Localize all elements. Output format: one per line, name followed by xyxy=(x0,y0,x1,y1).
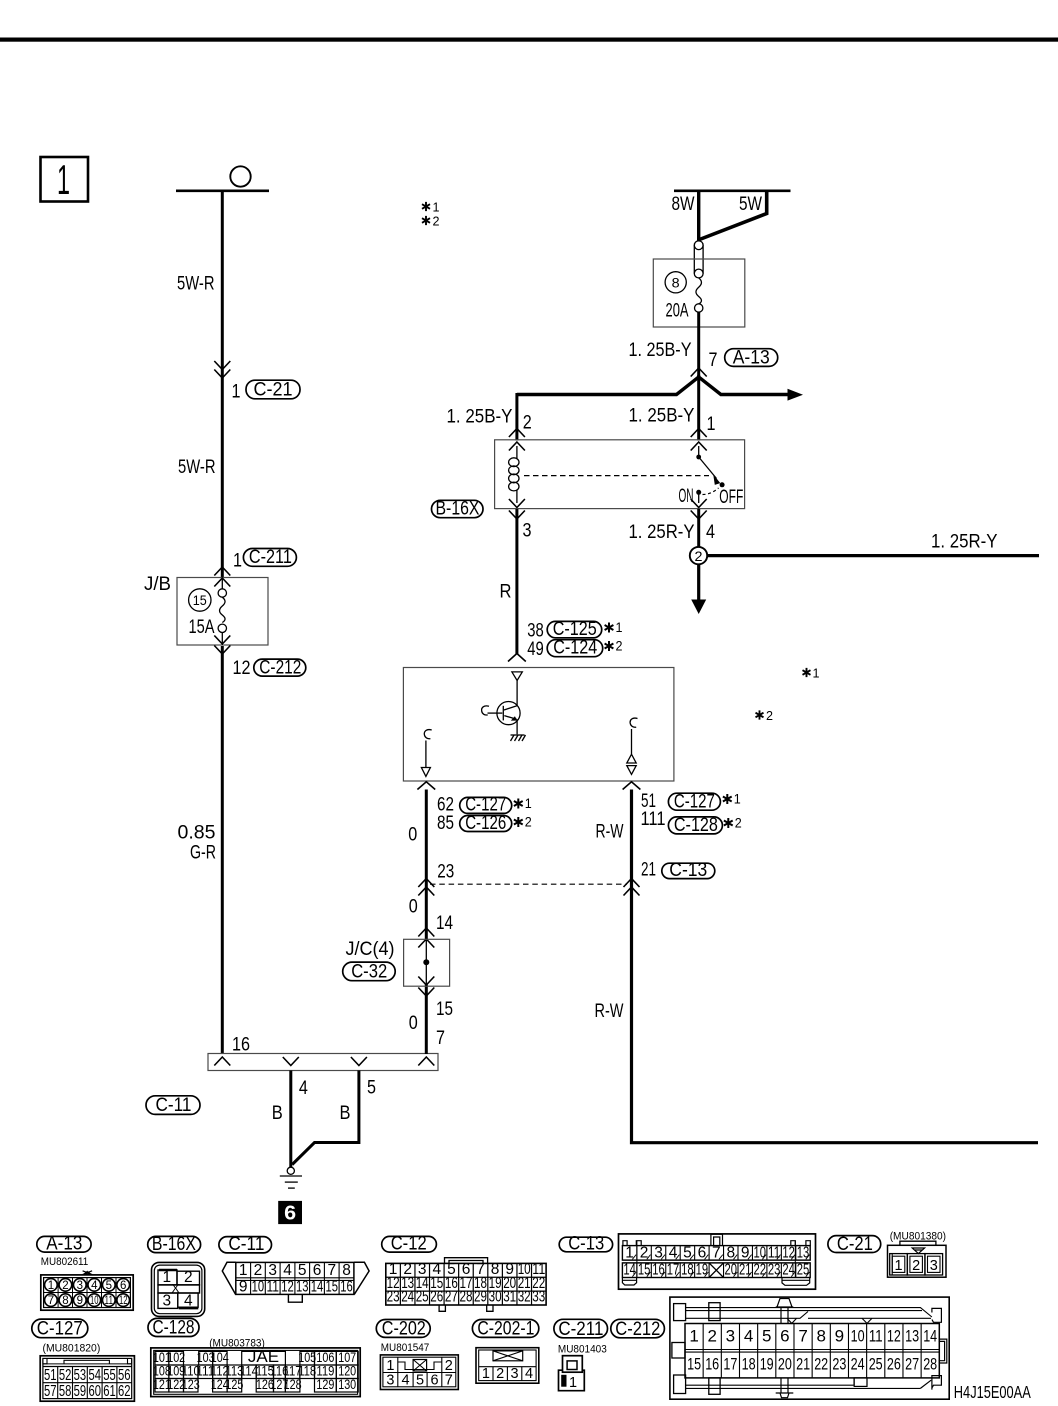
svg-text:OFF: OFF xyxy=(719,487,743,508)
wire: relay pin 4 to splice 2 xyxy=(697,509,700,547)
svg-text:15: 15 xyxy=(436,999,453,1020)
svg-text:10: 10 xyxy=(90,1295,99,1307)
svg-text:128: 128 xyxy=(284,1377,302,1392)
svg-text:7: 7 xyxy=(709,350,718,371)
svg-text:8: 8 xyxy=(342,1262,351,1279)
chevron crossing J/B bottom edge xyxy=(214,636,230,645)
svg-text:12: 12 xyxy=(782,1244,795,1261)
fuse number circle 8 xyxy=(665,272,686,293)
svg-text:9: 9 xyxy=(239,1279,248,1296)
note star 1 (mid right) xyxy=(803,666,820,681)
arrowhead on feed bus xyxy=(788,389,804,401)
svg-text:5: 5 xyxy=(298,1262,307,1279)
svg-text:C-32: C-32 xyxy=(351,961,387,982)
svg-text:56: 56 xyxy=(118,1367,131,1384)
chevrons below relay pin 3 xyxy=(509,499,525,508)
connector symbol A-13 pin 7 (chevron up) xyxy=(691,368,707,377)
svg-text:19: 19 xyxy=(760,1355,774,1374)
svg-text:1: 1 xyxy=(57,156,70,203)
svg-text:R-W: R-W xyxy=(595,1001,624,1022)
svg-text:C-124: C-124 xyxy=(553,638,597,659)
svg-text:1. 25R-Y: 1. 25R-Y xyxy=(629,522,695,543)
note star 2 (top) xyxy=(422,214,440,229)
svg-text:16: 16 xyxy=(232,1035,250,1056)
svg-text:6: 6 xyxy=(780,1327,789,1346)
svg-text:10: 10 xyxy=(753,1244,766,1261)
svg-text:25: 25 xyxy=(869,1355,883,1374)
chevrons above relay pin 1 xyxy=(691,429,707,438)
svg-text:111: 111 xyxy=(641,809,666,830)
svg-text:20: 20 xyxy=(778,1355,792,1374)
svg-text:18: 18 xyxy=(742,1355,756,1374)
svg-text:B-16X: B-16X xyxy=(152,1234,196,1255)
ground reference number 6 (reversed) xyxy=(278,1201,302,1225)
svg-text:51: 51 xyxy=(44,1367,57,1384)
relay switch xyxy=(696,446,724,503)
svg-text:1: 1 xyxy=(482,1366,490,1382)
transistor Q1 xyxy=(488,702,521,735)
svg-text:2: 2 xyxy=(912,1258,920,1274)
svg-text:J/C(4): J/C(4) xyxy=(346,939,395,960)
wire: unit left output down to C-11 pin 7 (O) xyxy=(425,790,428,942)
connector label C-13 xyxy=(662,860,715,881)
relay label B-16X xyxy=(432,499,484,520)
svg-text:4: 4 xyxy=(184,1293,193,1310)
svg-text:0: 0 xyxy=(408,825,417,846)
svg-text:B: B xyxy=(272,1103,283,1124)
svg-text:1: 1 xyxy=(232,382,241,403)
connector label C-11 xyxy=(146,1095,200,1116)
svg-text:1: 1 xyxy=(233,551,242,572)
svg-text:C-21: C-21 xyxy=(837,1234,873,1255)
svg-text:57: 57 xyxy=(44,1383,57,1400)
svg-text:C-212: C-212 xyxy=(259,657,301,678)
svg-text:1: 1 xyxy=(569,1375,577,1391)
connector symbol at C-125/C-124 (lambda up) xyxy=(508,654,526,662)
svg-text:MU801403: MU801403 xyxy=(558,1343,607,1355)
svg-text:2: 2 xyxy=(254,1262,263,1279)
svg-text:53: 53 xyxy=(74,1367,87,1384)
svg-text:C-126: C-126 xyxy=(465,813,506,834)
svg-text:7: 7 xyxy=(445,1372,453,1388)
svg-text:X: X xyxy=(171,1281,179,1295)
svg-text:28: 28 xyxy=(923,1355,937,1374)
svg-text:3: 3 xyxy=(523,520,532,541)
junction dot xyxy=(423,959,429,965)
svg-text:4: 4 xyxy=(401,1372,409,1388)
svg-text:2: 2 xyxy=(766,708,773,723)
svg-text:12: 12 xyxy=(233,658,251,679)
svg-text:C-211: C-211 xyxy=(558,1319,603,1340)
svg-text:C-128: C-128 xyxy=(674,815,718,836)
svg-text:MU802611: MU802611 xyxy=(41,1256,89,1268)
svg-text:1: 1 xyxy=(689,1327,698,1346)
wire: junction down to relay pin 1 xyxy=(697,375,700,441)
svg-text:C-13: C-13 xyxy=(568,1234,604,1255)
connector label C-127 xyxy=(460,795,512,816)
svg-text:23: 23 xyxy=(437,862,454,883)
svg-text:MU801547: MU801547 xyxy=(381,1342,430,1354)
chevron pin 4 in strip xyxy=(283,1057,299,1066)
note star 1 xyxy=(723,791,741,807)
fuse box 8 xyxy=(653,259,745,327)
svg-text:1: 1 xyxy=(813,666,820,681)
collector lead xyxy=(516,681,518,706)
svg-text:130: 130 xyxy=(338,1377,356,1392)
svg-text:12: 12 xyxy=(887,1327,901,1346)
connector face C-202 xyxy=(376,1319,458,1390)
svg-text:17: 17 xyxy=(723,1355,737,1374)
svg-text:C-21: C-21 xyxy=(254,379,293,400)
svg-text:31: 31 xyxy=(503,1289,516,1306)
svg-text:24: 24 xyxy=(782,1262,795,1279)
svg-text:14: 14 xyxy=(923,1327,937,1346)
svg-text:4: 4 xyxy=(299,1078,308,1099)
svg-text:5: 5 xyxy=(416,1372,424,1388)
relay coil xyxy=(509,446,519,503)
svg-text:2: 2 xyxy=(523,413,532,434)
svg-text:(MU801820): (MU801820) xyxy=(43,1342,101,1354)
connector face MU801403 xyxy=(559,1356,585,1391)
svg-text:B: B xyxy=(340,1103,351,1124)
connector label C-32 xyxy=(343,961,396,982)
right output pigtail xyxy=(627,718,638,774)
svg-text:5: 5 xyxy=(367,1077,376,1098)
base pigtail curl xyxy=(482,706,489,715)
chassis ground inside unit xyxy=(511,735,526,741)
svg-text:17: 17 xyxy=(667,1262,680,1279)
connector face C-12 xyxy=(382,1234,546,1312)
svg-text:32: 32 xyxy=(518,1289,531,1306)
svg-text:60: 60 xyxy=(88,1383,101,1400)
svg-text:3: 3 xyxy=(511,1366,519,1382)
svg-text:11: 11 xyxy=(869,1327,883,1346)
connector fork below unit right xyxy=(623,782,641,790)
ground symbol xyxy=(280,1167,302,1188)
chevrons above relay pin 2 xyxy=(509,429,525,438)
connector symbol at C-21 pin 1 (double chevron down) xyxy=(214,361,230,370)
svg-text:25: 25 xyxy=(416,1289,429,1306)
svg-text:25: 25 xyxy=(797,1262,810,1279)
connector symbol above J/B (chevron up) xyxy=(214,567,230,576)
svg-text:5W-R: 5W-R xyxy=(177,274,215,295)
svg-text:G-R: G-R xyxy=(190,843,216,864)
svg-text:16: 16 xyxy=(705,1355,719,1374)
note star 2 xyxy=(724,815,742,831)
svg-text:14: 14 xyxy=(436,913,453,934)
connector face C-211/C-212 (joint connector) xyxy=(670,1297,949,1399)
svg-text:0: 0 xyxy=(409,896,418,917)
svg-text:9: 9 xyxy=(835,1327,844,1346)
svg-text:7: 7 xyxy=(798,1327,807,1346)
svg-text:1: 1 xyxy=(386,1358,394,1374)
svg-text:1. 25B-Y: 1. 25B-Y xyxy=(447,406,513,427)
svg-text:C-127: C-127 xyxy=(674,791,715,812)
double chevron up on left wire xyxy=(418,879,434,888)
left output pigtail xyxy=(421,730,431,777)
svg-text:R: R xyxy=(500,581,512,602)
wire: ignition switch to connector C-21 pin 1 (5W-R) xyxy=(221,191,224,378)
zone number box 1 xyxy=(41,156,89,203)
svg-text:13: 13 xyxy=(296,1279,309,1296)
tail lamp relay box B-16X xyxy=(495,440,745,509)
svg-text:26: 26 xyxy=(887,1355,901,1374)
chevron pin 5 in strip xyxy=(351,1057,367,1066)
svg-text:7: 7 xyxy=(48,1295,54,1307)
svg-text:2: 2 xyxy=(616,638,623,654)
svg-text:11: 11 xyxy=(768,1244,781,1261)
joint connector J/C(4) box xyxy=(404,939,450,986)
svg-text:55: 55 xyxy=(103,1367,116,1384)
svg-text:3: 3 xyxy=(77,1280,83,1292)
wire: fuse to junction (1.25B-Y) xyxy=(697,312,700,376)
svg-text:3: 3 xyxy=(386,1372,394,1388)
svg-text:5W-R: 5W-R xyxy=(178,457,216,478)
svg-text:12: 12 xyxy=(281,1279,294,1296)
note star 1 xyxy=(605,619,623,635)
svg-text:58: 58 xyxy=(59,1383,72,1400)
svg-text:15: 15 xyxy=(687,1355,701,1374)
svg-text:C-202-1: C-202-1 xyxy=(477,1319,534,1340)
svg-text:59: 59 xyxy=(74,1383,87,1400)
svg-text:21: 21 xyxy=(739,1262,752,1279)
chevron pin 16 inside strip xyxy=(214,1057,230,1066)
note star 2 xyxy=(605,638,623,654)
svg-text:6: 6 xyxy=(120,1280,126,1292)
chevron crossing J/C bottom xyxy=(418,977,434,986)
connector label C-125 xyxy=(547,619,602,640)
svg-text:6: 6 xyxy=(313,1262,322,1279)
svg-text:1: 1 xyxy=(616,619,623,635)
svg-text:14: 14 xyxy=(311,1279,324,1296)
svg-text:23: 23 xyxy=(387,1289,400,1306)
svg-text:1: 1 xyxy=(433,200,440,215)
svg-text:C-11: C-11 xyxy=(156,1095,192,1116)
svg-text:6: 6 xyxy=(284,1203,296,1225)
fuse number circle 15 xyxy=(189,589,211,611)
svg-text:10: 10 xyxy=(252,1279,265,1296)
svg-text:1: 1 xyxy=(48,1280,54,1292)
svg-text:123: 123 xyxy=(182,1377,200,1392)
svg-text:ON: ON xyxy=(679,486,694,507)
chevron below J/C xyxy=(418,988,434,997)
wire: C-21 to C-211 (5W-R) xyxy=(221,378,224,577)
connector label C-127 (right) xyxy=(668,791,720,812)
svg-text:2: 2 xyxy=(433,214,440,229)
svg-text:20A: 20A xyxy=(666,300,689,321)
splice Y junction with feed bus xyxy=(517,377,699,395)
svg-text:16: 16 xyxy=(340,1279,353,1296)
coil-to-switch link (dashed) xyxy=(524,475,709,477)
connector strip C-11 xyxy=(208,1054,438,1071)
double chevron up on right wire xyxy=(624,879,640,888)
svg-text:5: 5 xyxy=(106,1280,112,1292)
svg-text:22: 22 xyxy=(753,1262,766,1279)
connector labels C-211 C-212 xyxy=(554,1319,664,1356)
svg-text:2: 2 xyxy=(62,1280,68,1292)
svg-text:20: 20 xyxy=(725,1262,738,1279)
svg-text:15: 15 xyxy=(638,1262,651,1279)
connector fork below unit left xyxy=(417,782,435,790)
svg-text:26: 26 xyxy=(430,1289,443,1306)
svg-text:2: 2 xyxy=(445,1358,453,1374)
svg-text:61: 61 xyxy=(103,1383,116,1400)
chevrons below relay pin 4 xyxy=(691,499,707,508)
svg-text:4: 4 xyxy=(91,1280,98,1292)
svg-text:1: 1 xyxy=(239,1262,248,1279)
svg-text:5W: 5W xyxy=(739,194,762,215)
svg-text:2: 2 xyxy=(184,1269,193,1286)
svg-text:C-212: C-212 xyxy=(615,1319,660,1340)
svg-text:1. 25B-Y: 1. 25B-Y xyxy=(629,406,695,427)
svg-text:1: 1 xyxy=(734,791,741,807)
svg-text:21: 21 xyxy=(641,859,656,880)
svg-text:21: 21 xyxy=(796,1355,810,1374)
svg-text:13: 13 xyxy=(905,1327,919,1346)
svg-text:62: 62 xyxy=(118,1383,131,1400)
connector face C-127 xyxy=(32,1319,135,1402)
svg-text:24: 24 xyxy=(851,1355,865,1374)
svg-text:3: 3 xyxy=(726,1327,735,1346)
svg-text:J/B: J/B xyxy=(144,574,171,595)
wire: J/B to C-11 pin 16 (0.85 G-R) xyxy=(221,646,224,1054)
svg-text:125: 125 xyxy=(225,1377,243,1392)
svg-text:8: 8 xyxy=(816,1327,825,1346)
svg-text:15A: 15A xyxy=(189,617,215,638)
svg-text:1: 1 xyxy=(162,1269,171,1286)
input arrow triangle (down) xyxy=(512,672,522,681)
svg-text:12: 12 xyxy=(119,1295,128,1307)
note star 1 (top) xyxy=(422,200,440,215)
svg-text:C-211: C-211 xyxy=(249,547,292,568)
svg-text:15: 15 xyxy=(193,593,207,608)
svg-text:18: 18 xyxy=(681,1262,694,1279)
svg-text:8W: 8W xyxy=(672,194,695,215)
fusible link symbol xyxy=(694,241,703,312)
connector label C-126 xyxy=(460,813,512,834)
svg-text:54: 54 xyxy=(88,1367,101,1384)
connector label C-211 xyxy=(243,547,296,568)
svg-text:85: 85 xyxy=(437,813,454,834)
svg-text:27: 27 xyxy=(445,1289,458,1306)
5W branch wedge wire xyxy=(700,191,767,240)
svg-text:10: 10 xyxy=(851,1327,865,1346)
chevron below J/B xyxy=(214,646,230,655)
svg-text:R-W: R-W xyxy=(596,822,624,843)
svg-text:4: 4 xyxy=(283,1262,292,1279)
svg-text:8: 8 xyxy=(62,1295,68,1307)
double chevron up at J/C top xyxy=(418,928,434,937)
svg-text:A-13: A-13 xyxy=(46,1234,82,1255)
svg-text:0: 0 xyxy=(409,1013,418,1034)
svg-text:2: 2 xyxy=(496,1366,504,1382)
svg-text:B-16X: B-16X xyxy=(436,499,480,520)
ECU box (tail lamp control unit) xyxy=(403,668,674,782)
svg-text:1. 25B-Y: 1. 25B-Y xyxy=(629,340,692,361)
connector label C-21 xyxy=(246,379,300,400)
svg-text:H4J15E00AA: H4J15E00AA xyxy=(954,1382,1031,1402)
connector label C-124 xyxy=(547,638,603,659)
svg-text:3: 3 xyxy=(268,1262,277,1279)
wire: bus down to fusible link (8W side) xyxy=(697,191,700,241)
note star 2 (mid right) xyxy=(756,708,774,723)
svg-text:16: 16 xyxy=(652,1262,665,1279)
headlamp feed bus (top right) xyxy=(674,190,791,193)
note star 2 xyxy=(514,814,532,830)
svg-text:3: 3 xyxy=(162,1293,171,1310)
svg-text:C-128: C-128 xyxy=(153,1318,195,1339)
svg-text:7: 7 xyxy=(436,1028,445,1049)
wire: relay pin 3 down (R) xyxy=(515,509,518,654)
svg-text:28: 28 xyxy=(460,1289,473,1306)
svg-text:A-13: A-13 xyxy=(733,347,770,368)
svg-text:4: 4 xyxy=(744,1327,753,1346)
wire: C-11 pin 5 to ground (B) xyxy=(292,1071,359,1165)
svg-text:2: 2 xyxy=(525,814,532,830)
svg-text:19: 19 xyxy=(696,1262,709,1279)
connector label A-13 xyxy=(725,347,778,368)
chevron crossing J/B top edge xyxy=(214,578,230,587)
connector face C-21 xyxy=(828,1230,946,1277)
wire: junction to relay pin 2 (1.25B-Y) xyxy=(515,393,518,441)
ignition switch contact symbol xyxy=(176,166,269,191)
top border rule xyxy=(0,38,1058,42)
svg-text:49: 49 xyxy=(527,639,544,660)
svg-text:4: 4 xyxy=(525,1366,533,1382)
chevron pin 7 inside strip xyxy=(418,1057,434,1066)
svg-text:1: 1 xyxy=(525,795,532,811)
svg-text:13: 13 xyxy=(797,1244,810,1261)
svg-text:2: 2 xyxy=(695,549,703,564)
svg-text:15: 15 xyxy=(326,1279,339,1296)
svg-text:129: 129 xyxy=(316,1377,334,1392)
svg-text:C-202: C-202 xyxy=(382,1319,426,1340)
svg-text:33: 33 xyxy=(532,1289,545,1306)
svg-text:C-12: C-12 xyxy=(391,1234,427,1255)
svg-text:4: 4 xyxy=(706,522,715,543)
svg-text:27: 27 xyxy=(905,1355,919,1374)
svg-text:9: 9 xyxy=(77,1295,83,1307)
wire: unit right output down (R-W) xyxy=(632,790,1039,1143)
twisted pair link (dashed) xyxy=(430,883,627,885)
svg-text:1: 1 xyxy=(895,1258,903,1274)
svg-text:52: 52 xyxy=(59,1367,72,1384)
splice circle 2 xyxy=(690,547,707,564)
connector face A-13 xyxy=(37,1234,133,1311)
svg-text:1: 1 xyxy=(707,414,716,435)
connector face B-16X xyxy=(148,1234,205,1317)
svg-text:0.85: 0.85 xyxy=(178,823,216,844)
svg-text:23: 23 xyxy=(832,1355,846,1374)
svg-text:7: 7 xyxy=(327,1262,336,1279)
svg-text:14: 14 xyxy=(623,1262,636,1279)
arrow continuation down from splice 2 xyxy=(691,564,706,614)
svg-text:1. 25R-Y: 1. 25R-Y xyxy=(931,532,998,553)
svg-text:29: 29 xyxy=(474,1289,487,1306)
wire: C-11 pin 4 to ground (B) xyxy=(289,1071,292,1168)
svg-text:30: 30 xyxy=(489,1289,502,1306)
svg-text:3: 3 xyxy=(930,1258,938,1274)
svg-text:24: 24 xyxy=(401,1289,414,1306)
svg-text:2: 2 xyxy=(735,815,742,831)
connector face C-202-1 xyxy=(472,1319,538,1384)
connector face C-128 xyxy=(148,1318,360,1397)
svg-text:11: 11 xyxy=(266,1279,279,1296)
fuse 15 symbol xyxy=(218,578,226,646)
svg-text:C-127: C-127 xyxy=(37,1319,83,1340)
svg-text:11: 11 xyxy=(105,1295,114,1307)
svg-text:C-11: C-11 xyxy=(228,1234,264,1255)
